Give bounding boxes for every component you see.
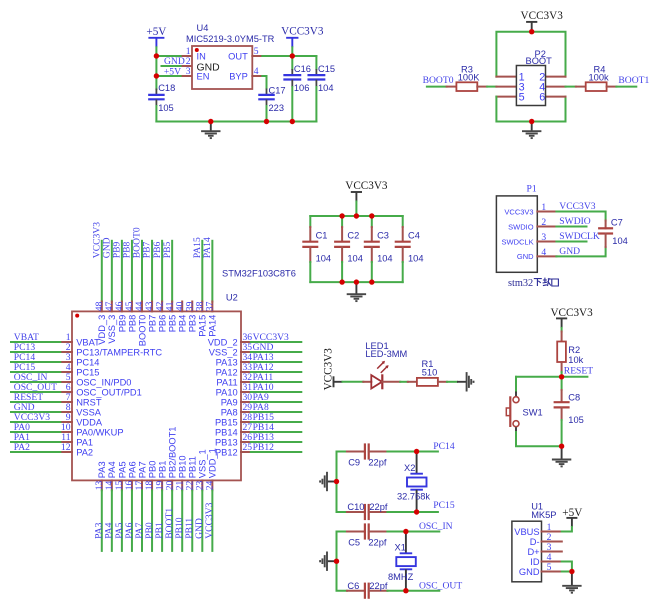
svg-text:STM32F103C8T6: STM32F103C8T6: [222, 269, 296, 279]
svg-text:C7: C7: [611, 217, 623, 227]
U2 pin number 38: [195, 301, 206, 311]
U2 pin number 43: [144, 301, 155, 311]
net label BOOT1: [164, 508, 175, 539]
junction USB GND: [569, 569, 574, 574]
svg-text:VCC3V3: VCC3V3: [550, 307, 593, 319]
net label PA4: [104, 522, 115, 538]
switch SW1: [506, 396, 519, 427]
net label PA10: [253, 382, 274, 393]
C10 designator: [347, 502, 364, 512]
power port VCC3V3 (decoupling caps): [345, 180, 388, 202]
C17 designator: [269, 86, 286, 96]
wire R3 to P2 pin3: [487, 86, 516, 88]
U2 pin number 39: [184, 301, 195, 311]
svg-text:PB12: PB12: [253, 442, 275, 453]
svg-text:PA0/WKUP: PA0/WKUP: [76, 427, 123, 437]
svg-text:PB3: PB3: [188, 315, 198, 333]
U2 pin name NRST: [76, 397, 102, 407]
U2 pin 28 (PB15) wire: [241, 421, 301, 423]
U2 pin name PB1: [158, 461, 168, 479]
U2 pin name PA0/WKUP: [76, 427, 123, 437]
U2 pin number 30: [243, 392, 253, 403]
C5 designator: [348, 537, 360, 547]
P2 pin number 4: [539, 81, 545, 93]
connector U1 body: [512, 521, 542, 582]
svg-text:VSS_1: VSS_1: [198, 449, 208, 478]
U4 pin number 1: [186, 46, 191, 57]
U2 pin name VSS_2: [209, 347, 238, 357]
X2 designator: [404, 463, 415, 473]
U2 pin 20 (PB2/BOOT1) wire: [171, 480, 173, 551]
U2 pin number 25: [243, 442, 253, 453]
net label PB13: [253, 432, 275, 443]
C1 value 104: [316, 253, 332, 263]
net label GND: [14, 402, 35, 413]
U2 pin name PB12: [215, 447, 238, 457]
wire R4 to BOOT1: [616, 86, 636, 88]
svg-text:PB8: PB8: [127, 315, 137, 333]
net label PA8: [253, 402, 269, 413]
net label PB15: [253, 412, 275, 423]
svg-text:VCC3V3: VCC3V3: [204, 502, 215, 538]
net label OSC_OUT: [14, 382, 57, 393]
svg-text:PB5: PB5: [162, 241, 173, 258]
svg-text:VCC3V3: VCC3V3: [559, 201, 595, 212]
U2 pin 21 (PB10) wire: [181, 480, 183, 551]
svg-text:PB9: PB9: [117, 315, 127, 333]
U2 pin 46 (PB9) wire: [121, 241, 123, 312]
net label PA1: [14, 432, 30, 443]
capacitor C17: [258, 89, 275, 107]
U2 pin 23 (VSS_1) wire: [201, 480, 203, 551]
C18 value 105: [158, 103, 174, 113]
svg-text:5: 5: [519, 91, 525, 103]
U2 pin number 44: [134, 301, 145, 311]
P1 pin 1 lead: [537, 211, 556, 213]
U1 pin name D-: [530, 537, 540, 547]
wire decoupling bottom rail: [310, 281, 402, 283]
capacitor C1: [302, 216, 318, 282]
R3 designator: [461, 64, 473, 74]
P2 pin number 1: [519, 71, 525, 83]
U2 value STM32F103C8T6: [222, 269, 296, 279]
U4 pin number 3: [186, 66, 191, 77]
svg-text:VCC3V3: VCC3V3: [281, 26, 324, 38]
svg-text:VDD_1: VDD_1: [208, 448, 218, 478]
U2 pin number 21: [174, 481, 185, 491]
R2 value 10k: [568, 355, 583, 365]
svg-text:R2: R2: [568, 345, 580, 355]
power port VCC3V3 (regulator output): [281, 26, 324, 48]
wire P2 pin4 to R4: [546, 86, 576, 88]
U2 pin 48 (VDD_3) wire: [101, 241, 103, 312]
svg-text:PA13: PA13: [216, 357, 238, 367]
wire U4 pin1 IN: [156, 55, 192, 57]
wire decoupling top rail: [310, 215, 402, 217]
net label VCC3V3 (P1): [559, 201, 595, 212]
U2 pin number 26: [243, 432, 253, 443]
crystal X1: [396, 532, 416, 591]
U2 pin 26 (PB13) wire: [241, 441, 301, 443]
P1 pin name SWDIO: [508, 222, 534, 231]
svg-text:PB10: PB10: [178, 455, 188, 478]
U4 pin name EN: [197, 71, 210, 81]
svg-text:C5: C5: [348, 537, 360, 547]
U2 pin 25 (PB12) wire: [241, 451, 301, 453]
net label PB9: [112, 241, 123, 258]
svg-text:SWDIO: SWDIO: [559, 216, 591, 227]
U4 pin number 5: [254, 46, 259, 57]
svg-text:PB14: PB14: [215, 427, 238, 437]
U2 pin 5 (OSC_IN/PD0) wire: [11, 381, 72, 383]
wire +5V to VBUS: [562, 527, 572, 532]
svg-text:SWDIO: SWDIO: [508, 222, 534, 231]
U1 pin number 3: [547, 542, 552, 553]
net label PA7: [134, 522, 145, 538]
svg-text:PA2: PA2: [76, 447, 93, 457]
svg-text:PA3: PA3: [97, 461, 107, 478]
net label VCC3V3: [204, 502, 215, 538]
U2 pin name VSS_3: [107, 315, 117, 344]
U2 pin name VSSA: [76, 407, 102, 417]
capacitor C8: [554, 377, 570, 446]
svg-text:PA9: PA9: [221, 397, 238, 407]
LED1 diode symbol: [363, 374, 400, 389]
svg-text:VCC3V3: VCC3V3: [521, 10, 564, 22]
U2 pin name PA3: [97, 461, 107, 478]
U2 pin 39 (PB3) wire: [191, 302, 193, 312]
U2 pin 6 (OSC_OUT/PD1) wire: [11, 391, 72, 393]
svg-text:8MHZ: 8MHZ: [388, 572, 414, 582]
U1 pin number 2: [547, 532, 552, 543]
svg-text:GND: GND: [559, 246, 580, 257]
U2 pin 37 (PA14) wire: [211, 241, 213, 312]
svg-text:OSC_IN: OSC_IN: [419, 521, 453, 532]
capacitor C7: [598, 221, 613, 248]
U2 pin name PC14: [76, 357, 99, 367]
U2 pin 32 (PA11) wire: [241, 381, 301, 383]
U2 pin number 29: [243, 402, 253, 413]
net label PB6: [152, 241, 163, 258]
svg-text:U2: U2: [226, 293, 238, 303]
U2 pin number 3: [66, 352, 71, 363]
net label PC15: [14, 362, 36, 373]
ground (LED block, rotated): [457, 372, 474, 391]
svg-text:P1: P1: [527, 183, 537, 194]
svg-text:VDD_2: VDD_2: [208, 337, 238, 347]
svg-text:OSC_OUT: OSC_OUT: [419, 580, 462, 591]
U2 pin 40 (PB4) wire: [181, 302, 183, 312]
wire VCC3V3 to R2: [561, 328, 563, 332]
U1 value MK5P: [531, 510, 556, 520]
U2 pin 44 (BOOT0) wire: [141, 241, 143, 312]
U2 pin name OSC_IN/PD0: [76, 377, 131, 387]
wire P2 pin1: [496, 76, 516, 78]
wire GND row: [562, 571, 572, 573]
net label BOOT0: [423, 75, 454, 86]
net label PC13: [14, 342, 36, 353]
svg-text:24: 24: [205, 481, 216, 491]
svg-text:C8: C8: [568, 393, 580, 403]
P2 pin number 5: [519, 91, 525, 103]
U2 pin 47 (VSS_3) wire: [111, 241, 113, 312]
U2 pin 31 (PA10) wire: [241, 391, 301, 393]
svg-text:PB6: PB6: [158, 315, 168, 333]
svg-text:22pf: 22pf: [369, 581, 388, 591]
U4 pin number 2: [186, 56, 191, 67]
svg-text:PA7: PA7: [137, 461, 147, 478]
svg-text:SWDCLK: SWDCLK: [559, 231, 600, 242]
LED1 emission arrows: [377, 361, 388, 373]
wire VCC3V3 to LED: [343, 381, 364, 383]
U2 pin name PA4: [107, 461, 117, 478]
U2 pin number 37: [205, 301, 216, 311]
P2 pin number 3: [519, 81, 525, 93]
SW1 designator: [523, 407, 543, 417]
net label PA14: [202, 237, 213, 258]
U2 pin number 5: [66, 372, 71, 383]
microcontroller U2 STM32F103C8T6 body: [72, 311, 241, 480]
svg-text:PB12: PB12: [215, 447, 238, 457]
wire BOOT0 to R3: [427, 86, 447, 88]
svg-text:OUT: OUT: [228, 51, 248, 61]
wire U4 OUT to VCC3V3 rail: [252, 55, 316, 57]
svg-text:C2: C2: [347, 231, 359, 241]
capacitor C9: [337, 443, 388, 481]
svg-text:PB13: PB13: [215, 437, 238, 447]
junction rail/C17: [264, 119, 269, 124]
U2 pin name PA7: [137, 461, 147, 478]
C3 value 104: [377, 253, 393, 263]
wire GND to C7 bottom: [556, 247, 605, 256]
U1 pin 5 lead: [542, 571, 562, 573]
U4 value MIC5219-3.0YM5-TR: [186, 34, 275, 44]
R2 designator: [568, 345, 580, 355]
svg-text:105: 105: [158, 103, 174, 113]
junction top rail C3: [369, 213, 374, 218]
svg-text:C16: C16: [294, 64, 311, 74]
junction rail/ground: [208, 119, 213, 124]
U2 pin number 22: [184, 481, 195, 491]
P2 value BOOT: [526, 56, 553, 66]
capacitor C18: [148, 89, 165, 107]
voltage regulator U4 MIC5219 body: [192, 46, 252, 89]
junction RESET: [559, 374, 564, 379]
U2 pin number 42: [154, 301, 165, 311]
net label PC14: [433, 441, 455, 452]
wire U4 pin2 with net label GND: [162, 65, 193, 67]
svg-text:PA14: PA14: [202, 237, 213, 258]
U2 pin number 28: [243, 412, 253, 423]
wire U4 BYP to C17: [252, 76, 266, 89]
wire P2 pin5: [496, 97, 565, 122]
svg-text:C17: C17: [269, 86, 286, 96]
net label PA6: [124, 522, 135, 538]
C16 designator: [294, 64, 311, 74]
capacitor C4: [395, 216, 411, 282]
svg-text:VBUS: VBUS: [514, 527, 539, 537]
U2 pin number 12: [61, 442, 71, 453]
U2 pin number 19: [154, 481, 165, 491]
U2 pin name PB5: [168, 315, 178, 333]
capacitor C2: [334, 216, 350, 282]
wire C18 to bottom rail: [155, 106, 157, 122]
capacitor C15: [307, 56, 325, 122]
U2 pin name OSC_OUT/PD1: [76, 387, 142, 397]
U2 pin number 7: [66, 392, 71, 403]
svg-text:VCC3V3: VCC3V3: [345, 180, 388, 192]
R1 value 510: [422, 368, 438, 378]
net label BOOT0: [132, 227, 143, 258]
wire SW1 upper: [515, 377, 517, 396]
svg-text:D+: D+: [527, 547, 539, 557]
svg-text:PC15: PC15: [433, 500, 455, 511]
svg-text:BOOT1: BOOT1: [618, 75, 649, 86]
LED1 value LED-3MM: [365, 349, 407, 359]
wire +5V vertical to C18: [155, 47, 157, 89]
U2 pin 16 (PA6) wire: [131, 480, 133, 551]
U2 pin number 4: [66, 362, 71, 373]
net label PB7: [142, 241, 153, 258]
U2 pin name PB10: [178, 455, 188, 478]
C5 value 22pf: [368, 537, 387, 547]
wire VCC3V3 stem to OUT rail: [291, 47, 293, 56]
U2 pin 17 (PA7) wire: [141, 480, 143, 551]
svg-text:25: 25: [243, 442, 253, 453]
net label PB8: [122, 241, 133, 258]
wire ID row: [562, 562, 572, 572]
R4 designator: [594, 64, 606, 74]
P1 caption stm32 download port: [508, 278, 558, 289]
U2 pin name VDD_2: [208, 337, 238, 347]
svg-text:PA4: PA4: [107, 461, 117, 478]
svg-text:C9: C9: [348, 457, 360, 467]
net label PB10: [174, 517, 185, 539]
U1 pin name D+: [527, 547, 539, 557]
U2 designator: [226, 293, 238, 303]
U2 pin 18 (PB0) wire: [151, 480, 153, 551]
U1 pin number 4: [547, 552, 552, 563]
net label PB5: [162, 241, 173, 258]
net label PA5: [114, 522, 125, 538]
C10 value 22pf: [369, 502, 388, 512]
svg-text:PC15: PC15: [76, 367, 99, 377]
crystal X2: [407, 452, 427, 513]
ground (X1 block, rotated): [320, 552, 336, 571]
svg-text:PC14: PC14: [433, 441, 455, 452]
U1 pin 1 lead: [542, 531, 562, 533]
U2 pin 22 (PB11) wire: [191, 480, 193, 551]
U2 pin number 18: [144, 481, 155, 491]
U2 pin name VBAT: [76, 337, 100, 347]
U2 pin name PB14: [215, 427, 238, 437]
U1 pin 4 lead: [542, 561, 562, 563]
U2 pin 45 (PB8) wire: [131, 241, 133, 312]
U2 pin name PB6: [158, 315, 168, 333]
net label PC14: [14, 352, 36, 363]
P1 designator: [527, 183, 537, 194]
U2 pin 19 (PB1) wire: [161, 480, 163, 551]
U2 pin name VDDA: [76, 417, 103, 427]
svg-text:BOOT0: BOOT0: [137, 315, 147, 347]
svg-text:PA14: PA14: [208, 315, 218, 337]
svg-text:104: 104: [316, 253, 332, 263]
svg-text:PA10: PA10: [216, 387, 238, 397]
junction bottom rail ground: [354, 279, 359, 284]
net label PA12: [253, 362, 274, 373]
svg-text:PB2/BOOT1: PB2/BOOT1: [168, 427, 178, 479]
U2 pin name PA6: [127, 461, 137, 478]
svg-text:PA15: PA15: [198, 315, 208, 337]
P1 pin number 1: [541, 202, 546, 213]
U2 pin name VDD_1: [208, 448, 218, 478]
svg-text:22pf: 22pf: [368, 537, 387, 547]
C15 designator: [318, 64, 335, 74]
svg-text:PC13/TAMPER-RTC: PC13/TAMPER-RTC: [76, 347, 162, 357]
power port VCC3V3 (LED, rotated): [323, 348, 343, 391]
P1 pin 2 lead: [537, 226, 556, 228]
U4 pin name BYP: [229, 71, 248, 81]
U2 pin number 15: [114, 481, 125, 491]
U2 pin name PA2: [76, 447, 93, 457]
U2 pin number 34: [243, 352, 253, 363]
net label PA0: [14, 422, 30, 433]
svg-text:C10: C10: [347, 502, 364, 512]
svg-text:RESET: RESET: [564, 366, 593, 377]
svg-text:+5V: +5V: [146, 26, 166, 38]
svg-text:510: 510: [422, 368, 438, 378]
U2 pin name PB3: [188, 315, 198, 333]
svg-text:C15: C15: [318, 64, 335, 74]
svg-text:VCC3V3: VCC3V3: [504, 207, 533, 216]
svg-text:C18: C18: [158, 83, 175, 93]
U2 pin name PB15: [215, 417, 238, 427]
net label PA11: [253, 372, 274, 383]
wire SW1 lower: [516, 427, 562, 446]
U2 pin number 10: [61, 422, 71, 433]
svg-text:104: 104: [408, 253, 424, 263]
wire R1 to ground: [447, 381, 457, 383]
U2 pin name PB9: [117, 315, 127, 333]
X2 value 32.768k: [397, 492, 430, 502]
R3 value 100K: [458, 73, 481, 83]
U2 pin 29 (PA8) wire: [241, 411, 301, 413]
U2 pin 15 (PA5) wire: [121, 480, 123, 551]
svg-text:PA1: PA1: [76, 437, 93, 447]
U2 pin 2 (PC13/TAMPER-RTC) wire: [11, 351, 72, 353]
C18 designator: [158, 83, 175, 93]
U1 pin name VBUS: [514, 527, 539, 537]
power port +5V (regulator input): [146, 26, 166, 47]
svg-text:D-: D-: [530, 537, 540, 547]
junction C8/ground: [559, 444, 564, 449]
wire C10 to X2/PC15: [387, 511, 438, 513]
C7 value 104: [612, 236, 628, 246]
junction +5V/EN: [154, 73, 159, 78]
P1 pin name SWDCLK: [502, 237, 534, 246]
C4 value 104: [408, 253, 424, 263]
R4 value 100k: [589, 73, 610, 83]
U2 pin number 8: [66, 402, 71, 413]
capacitor C6: [337, 561, 388, 599]
U2 pin 38 (PA15) wire: [201, 241, 203, 312]
net label PA2: [14, 442, 30, 453]
U2 pin 43 (PB7) wire: [151, 241, 153, 312]
junction X2 bottom: [414, 509, 419, 514]
svg-text:106: 106: [294, 83, 310, 93]
U2 pin number 1: [66, 332, 71, 343]
P1 pin 3 lead: [537, 241, 556, 243]
